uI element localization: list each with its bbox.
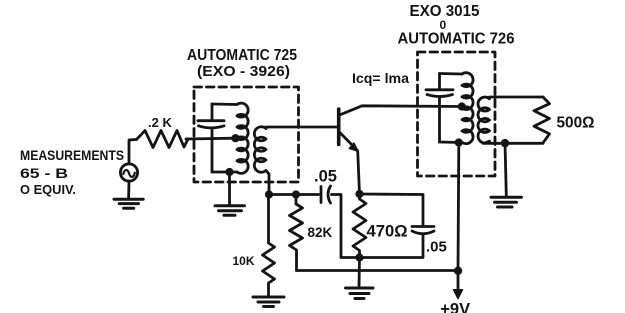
+9V arrow shaft (457, 271, 460, 290)
svg-text:AUTOMATIC 726: AUTOMATIC 726 (398, 31, 515, 48)
node dot +9V junction (454, 267, 462, 275)
wire resistor to transformer T1 primary (186, 137, 236, 141)
transistor Q1 base bar (337, 109, 341, 145)
wire load bottom rail (483, 141, 543, 143)
wire C2 to 470 bottom node (332, 195, 360, 258)
label MEASUREMENTS 65-B source (20, 148, 124, 197)
label EXO 3015 / AUTOMATIC 726 (398, 3, 515, 48)
svg-text:Icq= lma: Icq= lma (352, 70, 409, 86)
svg-text:O EQUIV.: O EQUIV. (20, 182, 76, 197)
resistor R4 470ohm (353, 194, 366, 258)
generator V1 (AC source circle) (120, 164, 137, 181)
wire T2 top rail (440, 72, 463, 75)
svg-text:65 - B: 65 - B (20, 165, 68, 181)
svg-text:500Ω: 500Ω (557, 114, 595, 131)
capacitor C3 bottom lead (360, 234, 424, 258)
wire T1 bottom rail (212, 171, 237, 174)
capacitor C4 (parallel with T2 primary): top lead (438, 74, 441, 89)
wire 470 top rail to C3 (360, 194, 424, 225)
node dot T2 primary input (458, 102, 466, 110)
node dot 82K tap (292, 190, 300, 198)
ground below 10K (253, 297, 284, 307)
wire T1 top rail (212, 103, 237, 106)
capacitor C1 curved plate (199, 126, 225, 128)
transformer T2 secondary coil (478, 97, 490, 143)
capacitor C3 .05 shunt straight plate (412, 225, 434, 228)
node dot 470 bottom (355, 253, 363, 261)
transistor Q1 collector (340, 106, 462, 115)
dashed box AUTOMATIC 725 (194, 87, 299, 182)
emitter arrowhead (349, 143, 359, 152)
svg-text:10K: 10K (233, 254, 255, 268)
node dot T2 secondary ground tap (501, 139, 509, 147)
transformer T1 primary coil (237, 103, 248, 173)
svg-text:.05: .05 (314, 168, 337, 186)
+9V rail wire (297, 269, 459, 272)
wire T1 secondary bottom down (266, 171, 269, 195)
node dot 10K tap (265, 190, 273, 198)
wire T2 secondary top rail to load (490, 97, 544, 99)
transformer T1 secondary coil (254, 127, 266, 173)
svg-text:82K: 82K (308, 225, 333, 240)
capacitor C1 (parallel with T1 primary): top lead (211, 104, 214, 119)
wire T1 secondary top to base (266, 127, 337, 129)
wire source top to resistor (129, 140, 136, 164)
capacitor C4 curved plate (427, 95, 453, 97)
resistor R1 .2K zigzag (137, 131, 189, 148)
dashed box AUTOMATIC 726 (418, 52, 496, 176)
resistor R2 10K (263, 198, 275, 296)
transistor Q1 emitter (340, 133, 356, 150)
ground below T2 secondary (505, 143, 506, 196)
capacitor C2 curved plate (328, 186, 331, 203)
capacitor C2 .05 series straight plate (320, 187, 323, 203)
resistor R3 82K (290, 198, 303, 271)
capacitor C3 curved plate (412, 231, 434, 234)
capacitor C1 bottom lead (211, 129, 214, 173)
svg-text:.2 K: .2 K (148, 115, 172, 130)
capacitor C1 straight plate (198, 119, 224, 122)
resistor R5 500ohm zigzag (534, 97, 550, 143)
label AUTOMATIC 725 (187, 47, 297, 80)
wire T2 bottom rail (440, 141, 463, 144)
capacitor C4 bottom lead (438, 98, 441, 143)
svg-text:AUTOMATIC 725: AUTOMATIC 725 (187, 47, 297, 64)
svg-text:(EXO - 3926): (EXO - 3926) (197, 63, 290, 80)
ground below 470 (358, 258, 361, 288)
svg-text:470Ω: 470Ω (367, 222, 408, 241)
node dot T1 bottom rail (225, 168, 233, 176)
wire emitter down (358, 151, 360, 194)
node line from T1 secondary bottom (269, 193, 319, 196)
ground below source (127, 181, 130, 198)
sine symbol inside source (123, 170, 135, 177)
ground below T1 (228, 172, 231, 205)
node dot T2 primary bottom (455, 138, 463, 146)
transformer T2 primary coil (462, 73, 473, 144)
svg-text:+9V: +9V (440, 301, 470, 313)
wire T2 primary bottom to +9V node (457, 143, 461, 271)
svg-text:.05: .05 (426, 239, 447, 256)
svg-text:MEASUREMENTS: MEASUREMENTS (20, 148, 124, 163)
node dot emitter/470 top (355, 190, 363, 198)
+9V arrowhead (453, 290, 463, 300)
node dot T1 primary input (231, 134, 239, 142)
capacitor C4 straight plate (426, 88, 453, 91)
